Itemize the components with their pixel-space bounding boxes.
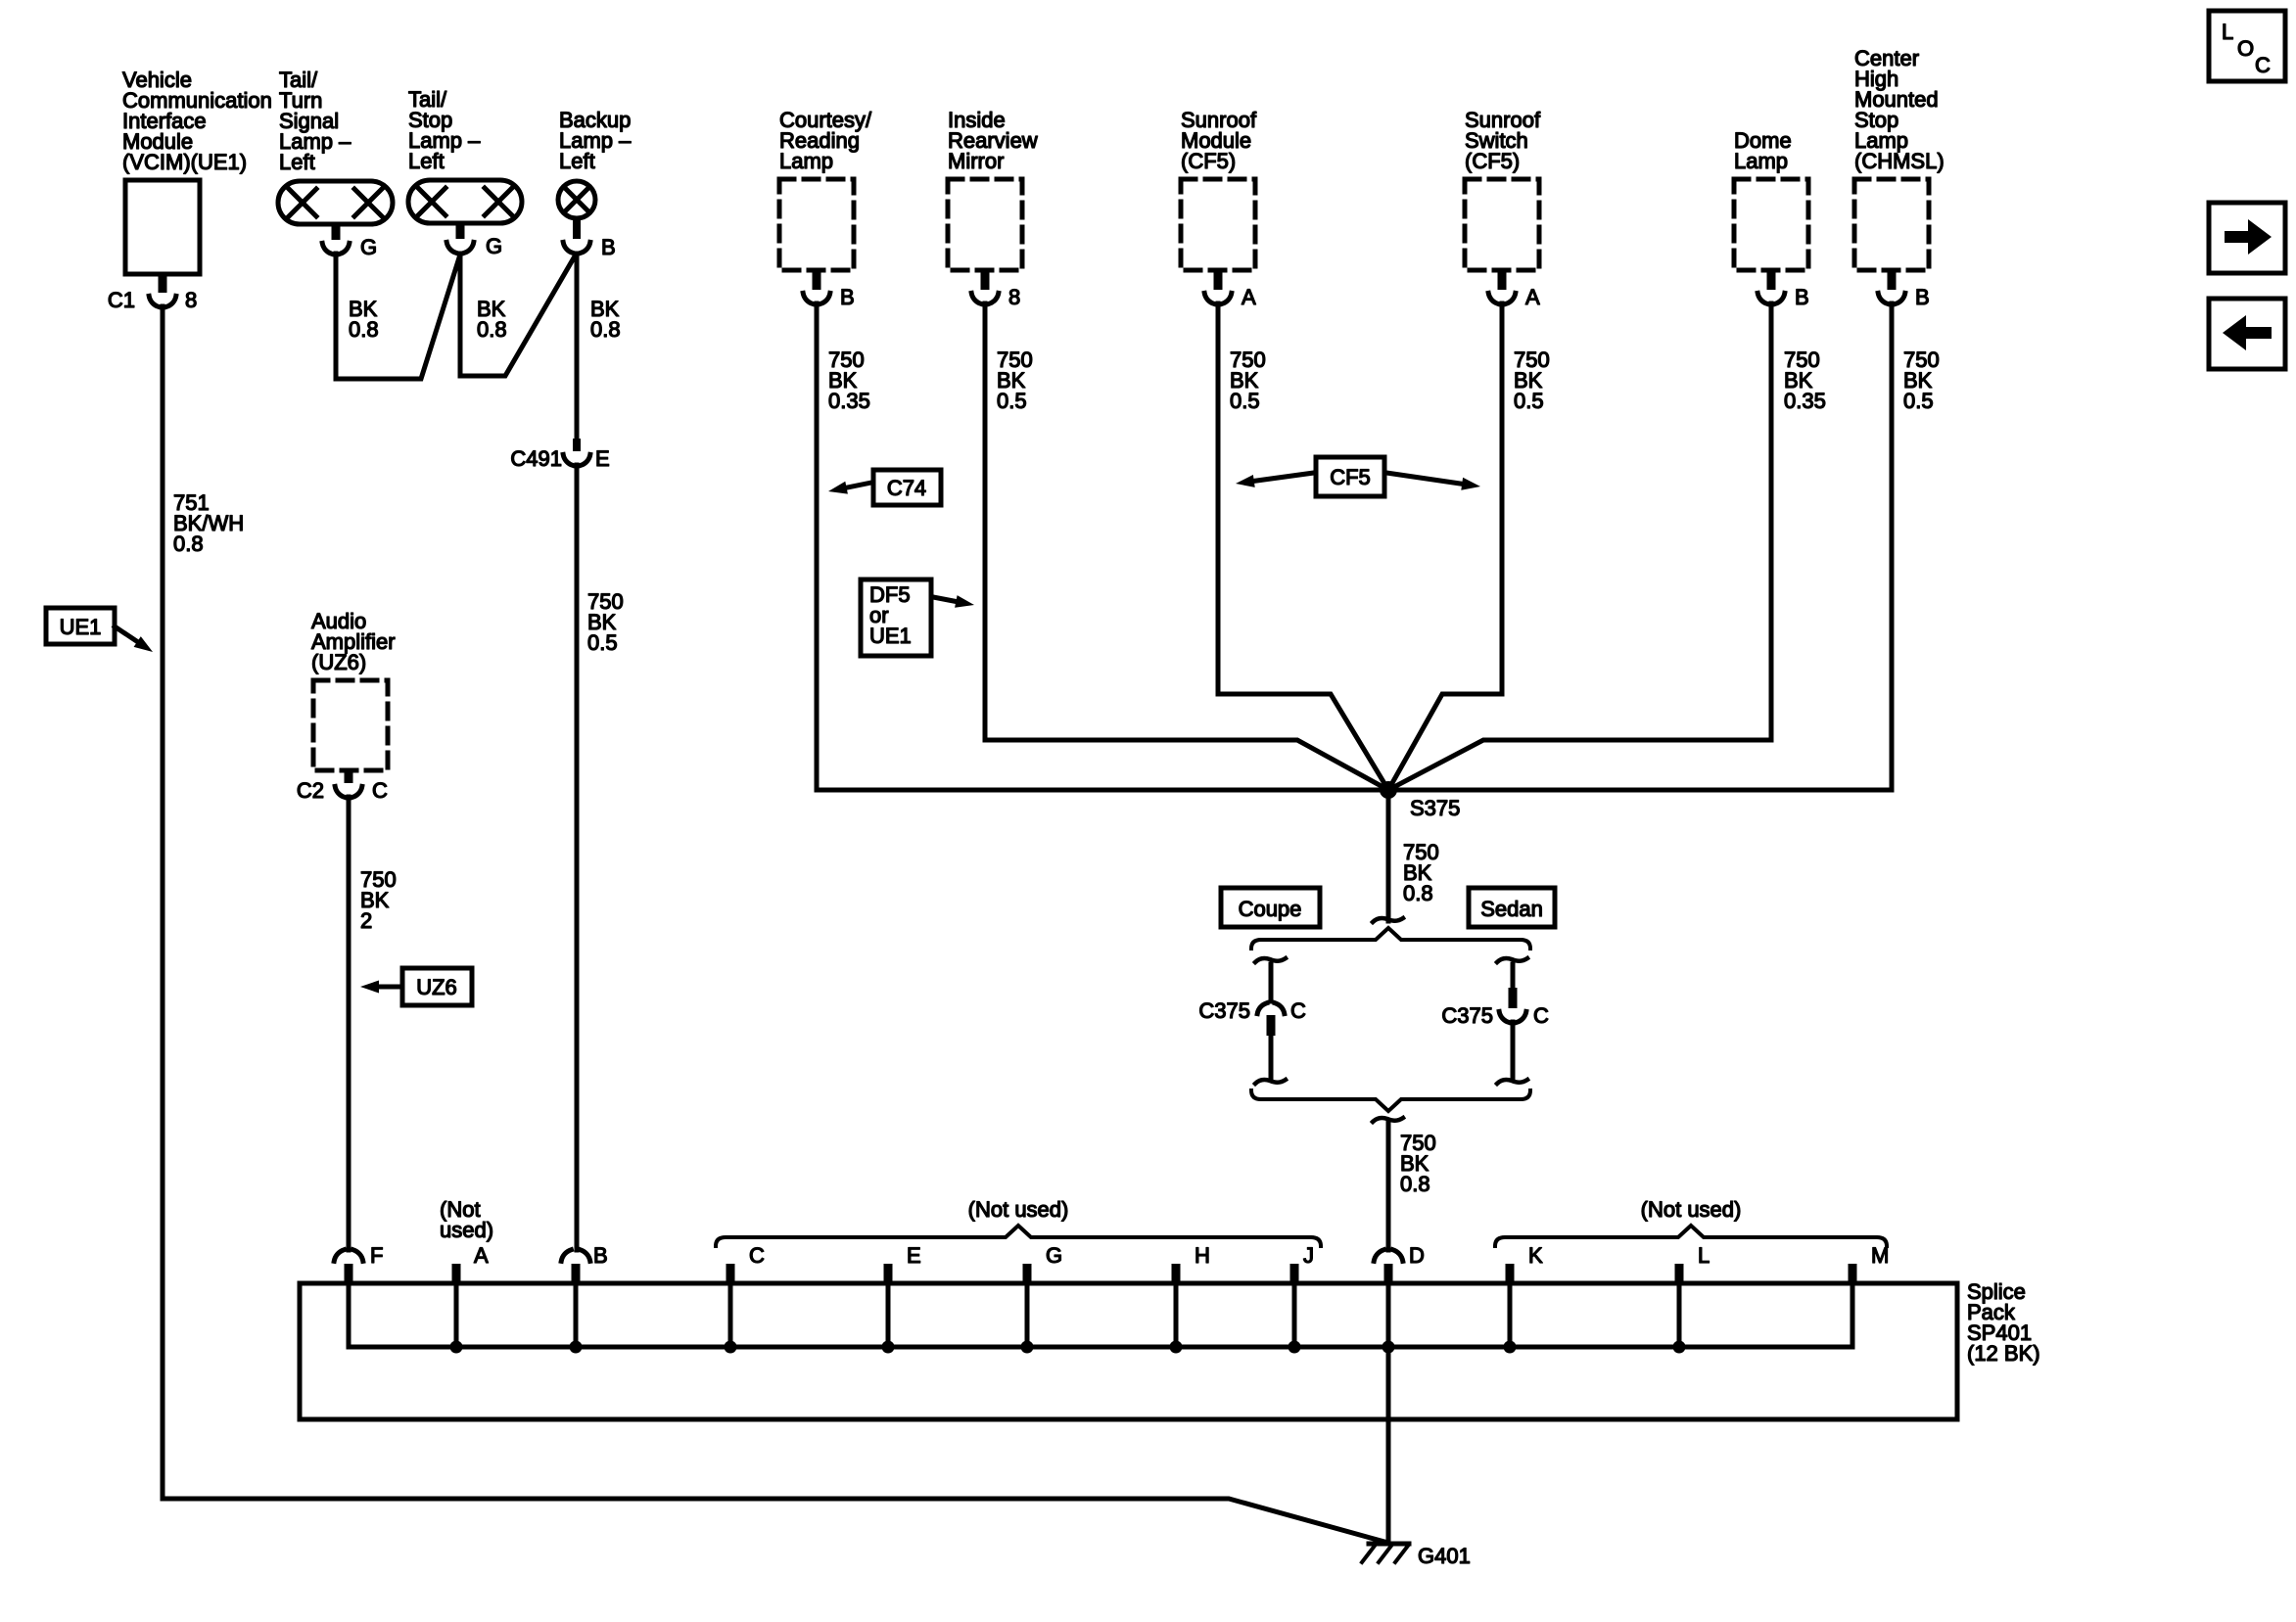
svg-text:(CHMSL): (CHMSL) bbox=[1854, 149, 1945, 173]
label courtesy/reading lamp bbox=[779, 108, 872, 173]
harness code box DF5 or UE1 bbox=[861, 579, 974, 656]
label Tail/Stop Lamp - Left bbox=[408, 87, 481, 173]
lamp E3 backup lamp symbol bbox=[558, 181, 595, 218]
svg-text:8: 8 bbox=[1008, 285, 1020, 309]
svg-text:0.5: 0.5 bbox=[587, 630, 618, 655]
splice pack terminal M bbox=[1849, 1243, 1890, 1283]
svg-text:G: G bbox=[486, 234, 502, 258]
svg-text:C2: C2 bbox=[297, 778, 324, 803]
svg-text:D: D bbox=[1409, 1243, 1425, 1268]
wire label BK 0.8 (backup) bbox=[590, 297, 621, 342]
junction dot at terminal G bbox=[1021, 1341, 1034, 1354]
label sunroof module (CF5) bbox=[1181, 108, 1257, 173]
wire 750 BK 0.8 from S375 down bbox=[1386, 794, 1391, 921]
wire label 750 BK 0.35 (courtesy) bbox=[828, 348, 870, 413]
wire BK 0.8 tail/stop lamp bbox=[460, 254, 576, 376]
component courtesy/reading lamp dashed box bbox=[779, 179, 854, 270]
component sunroof module (CF5) dashed box bbox=[1181, 179, 1255, 270]
terminal G stub to internal bus bbox=[1025, 1283, 1030, 1347]
svg-text:UZ6: UZ6 bbox=[416, 975, 457, 999]
coupe branch wire lower bbox=[1255, 1036, 1286, 1084]
svg-text:UE1: UE1 bbox=[60, 615, 102, 639]
splice pack internal bus bar bbox=[349, 1345, 1852, 1350]
svg-text:(UZ6): (UZ6) bbox=[311, 650, 366, 674]
svg-text:B: B bbox=[840, 285, 855, 309]
label (Not used) over C-J bbox=[968, 1197, 1069, 1222]
wire BK 0.8 tail/turn lamp bbox=[336, 254, 460, 379]
wire 750 BK 0.5 from C491 to splice pack pin B bbox=[575, 465, 580, 1250]
ground label G401 bbox=[1418, 1544, 1471, 1568]
svg-text:Left: Left bbox=[408, 149, 445, 173]
terminal K stub to internal bus bbox=[1508, 1283, 1513, 1347]
svg-text:C: C bbox=[372, 778, 388, 803]
svg-text:0.5: 0.5 bbox=[1230, 389, 1260, 413]
junction dot at terminal A bbox=[450, 1341, 463, 1354]
variant box Sedan bbox=[1469, 888, 1555, 927]
label inside rearview mirror bbox=[948, 108, 1038, 173]
svg-text:(Not used): (Not used) bbox=[968, 1197, 1069, 1222]
component dome lamp dashed box bbox=[1734, 179, 1808, 270]
harness code box UZ6 bbox=[360, 968, 472, 1005]
lamp E2 tail/stop dual-filament symbol bbox=[408, 180, 522, 223]
sedan branch wire upper bbox=[1497, 958, 1527, 988]
wire label 750 BK 2 bbox=[360, 867, 397, 933]
terminal E stub to internal bus bbox=[886, 1283, 891, 1347]
svg-text:0.8: 0.8 bbox=[1400, 1172, 1430, 1196]
forward page arrow box bbox=[2209, 203, 2285, 273]
splice label S375 bbox=[1410, 796, 1460, 820]
connector pin G of tail/stop lamp bbox=[446, 223, 502, 258]
wire label BK 0.8 (tail/stop) bbox=[477, 297, 507, 342]
wire 750 BK 0.5 CHMSL to S375 bbox=[1890, 303, 1895, 790]
svg-text:G: G bbox=[360, 235, 377, 259]
inline connector C491 pin E bbox=[510, 439, 609, 471]
svg-text:Left: Left bbox=[559, 149, 595, 173]
svg-text:A: A bbox=[1525, 285, 1540, 309]
svg-text:A: A bbox=[1242, 285, 1256, 309]
terminal C stub to internal bus bbox=[728, 1283, 733, 1347]
wire label 751 BK/WH 0.8 bbox=[173, 490, 244, 556]
wire label 750 BK 0.5 (CHMSL) bbox=[1903, 348, 1940, 413]
svg-text:J: J bbox=[1303, 1243, 1314, 1268]
svg-text:used): used) bbox=[440, 1218, 493, 1242]
connector pin A of sunroof switch (CF5) bbox=[1488, 270, 1540, 309]
splice pack top bus line bbox=[300, 1281, 1957, 1286]
svg-text:C: C bbox=[1290, 998, 1306, 1023]
splice pack terminal L bbox=[1675, 1243, 1710, 1283]
connector pin A of sunroof module (CF5) bbox=[1204, 270, 1256, 309]
brace joining coupe/sedan branches bbox=[1251, 1090, 1530, 1111]
connector pin B of center high mounted stop lamp (CHMSL) bbox=[1878, 270, 1929, 309]
svg-text:Coupe: Coupe bbox=[1239, 897, 1302, 921]
back page arrow box bbox=[2209, 299, 2285, 369]
svg-text:Left: Left bbox=[279, 150, 315, 174]
brace (Not used) over terminals C-J bbox=[716, 1226, 1321, 1246]
connector pin 8 of inside rearview mirror bbox=[971, 270, 1020, 309]
variant box Coupe bbox=[1221, 888, 1320, 927]
splice pack terminal D bbox=[1374, 1243, 1425, 1283]
inline connector C375 (sedan) pin C bbox=[1441, 988, 1549, 1028]
component sunroof switch (CF5) dashed box bbox=[1465, 179, 1539, 270]
label Audio Amplifier (UZ6) bbox=[311, 609, 396, 674]
wire 750 BK 0.5 mirror to S375 bbox=[985, 303, 1388, 790]
junction dot at terminal C bbox=[725, 1341, 737, 1354]
svg-text:0.5: 0.5 bbox=[997, 389, 1027, 413]
sedan branch wire lower bbox=[1497, 1022, 1527, 1084]
wire 750 BK 0.5 sunroof switch to S375 bbox=[1388, 303, 1502, 790]
wire bus into splice S375 bbox=[817, 788, 1892, 793]
wire break symbol below joining brace bbox=[1373, 1118, 1403, 1122]
svg-text:G: G bbox=[1046, 1243, 1062, 1268]
svg-text:2: 2 bbox=[360, 908, 372, 933]
svg-text:L: L bbox=[2222, 20, 2233, 44]
terminal F stub to internal bus bbox=[347, 1283, 351, 1347]
harness code box UE1 bbox=[46, 608, 153, 652]
wire 751 BK/WH from VCIM C1 pin 8 to G401 bbox=[163, 306, 1384, 1542]
svg-text:(CF5): (CF5) bbox=[1465, 149, 1520, 173]
wire label 750 BK 0.5 (sunroof switch) bbox=[1514, 348, 1550, 413]
svg-text:(Not used): (Not used) bbox=[1641, 1197, 1742, 1222]
wire 750 BK 0.8 down to splice pack pin D bbox=[1386, 1123, 1391, 1250]
svg-text:C: C bbox=[1533, 1003, 1549, 1028]
svg-text:CF5: CF5 bbox=[1330, 465, 1371, 489]
wire BK 0.8 backup lamp to C491 bbox=[575, 254, 580, 439]
module U2 audio amplifier dashed box bbox=[313, 680, 388, 770]
page marker LOC box bbox=[2209, 11, 2285, 81]
svg-text:S375: S375 bbox=[1410, 796, 1460, 820]
svg-text:C74: C74 bbox=[887, 476, 926, 500]
svg-text:0.35: 0.35 bbox=[828, 389, 870, 413]
wire label 750 BK 0.5 (backup) bbox=[587, 589, 624, 655]
svg-text:B: B bbox=[1795, 285, 1809, 309]
terminal A stub to internal bus bbox=[454, 1283, 459, 1347]
svg-text:O: O bbox=[2237, 36, 2254, 61]
splice pack terminal E bbox=[884, 1243, 921, 1283]
junction dot at terminal B bbox=[570, 1341, 583, 1354]
svg-text:Lamp: Lamp bbox=[779, 149, 833, 173]
component inside rearview mirror dashed box bbox=[948, 179, 1022, 270]
coupe branch wire upper bbox=[1255, 958, 1286, 1001]
brace splitting to coupe/sedan branches bbox=[1251, 928, 1530, 949]
connector code box CF5 with arrows to sunroof wires bbox=[1236, 457, 1480, 496]
svg-text:C: C bbox=[749, 1243, 765, 1268]
lamp E1 tail/turn dual-filament symbol bbox=[278, 181, 393, 224]
svg-text:K: K bbox=[1528, 1243, 1543, 1268]
splice pack terminal G bbox=[1023, 1243, 1063, 1283]
splice pack terminal A bbox=[452, 1243, 490, 1283]
inline connector C375 (coupe) pin C bbox=[1198, 998, 1306, 1036]
svg-text:C375: C375 bbox=[1441, 1003, 1493, 1028]
label sunroof switch (CF5) bbox=[1465, 108, 1541, 173]
svg-text:0.8: 0.8 bbox=[1403, 881, 1433, 905]
junction dot at terminal K bbox=[1504, 1341, 1517, 1354]
svg-text:Mirror: Mirror bbox=[948, 149, 1004, 173]
svg-text:(CF5): (CF5) bbox=[1181, 149, 1236, 173]
svg-text:Lamp: Lamp bbox=[1734, 149, 1788, 173]
connector C2 pin C bbox=[297, 770, 388, 803]
wire label 750 BK 0.5 (mirror) bbox=[997, 348, 1033, 413]
terminal M stub to internal bus bbox=[1851, 1283, 1855, 1347]
svg-text:0.8: 0.8 bbox=[349, 317, 379, 342]
splice pack terminal H bbox=[1172, 1243, 1210, 1283]
svg-text:0.8: 0.8 bbox=[173, 532, 204, 556]
connector C1 pin 8 bbox=[108, 274, 197, 312]
splice S375 junction dot bbox=[1380, 781, 1397, 799]
svg-text:B: B bbox=[593, 1243, 608, 1268]
splice pack terminal F bbox=[334, 1243, 383, 1283]
label Vehicle Communication Interface Module (VCIM)(UE1) bbox=[122, 68, 272, 174]
module U1 VCIM box bbox=[125, 180, 200, 274]
wire label 750 BK 0.8 (below S375) bbox=[1403, 840, 1439, 905]
svg-text:(VCIM)(UE1): (VCIM)(UE1) bbox=[122, 150, 247, 174]
svg-text:C1: C1 bbox=[108, 288, 135, 312]
junction dot at terminal L bbox=[1673, 1341, 1686, 1354]
terminal H stub to internal bus bbox=[1174, 1283, 1179, 1347]
svg-text:E: E bbox=[595, 446, 610, 471]
svg-text:E: E bbox=[907, 1243, 921, 1268]
splice pack SP401 outline box bbox=[300, 1283, 1957, 1419]
wire label BK 0.8 (tail/turn) bbox=[349, 297, 379, 342]
svg-text:8: 8 bbox=[185, 288, 197, 312]
terminal L stub to internal bus bbox=[1677, 1283, 1682, 1347]
wire label 750 BK 0.35 (dome) bbox=[1784, 348, 1826, 413]
wire 750 BK 0.5 sunroof module to S375 bbox=[1218, 303, 1388, 790]
svg-text:L: L bbox=[1698, 1243, 1710, 1268]
svg-text:B: B bbox=[601, 235, 616, 259]
svg-text:0.5: 0.5 bbox=[1903, 389, 1934, 413]
component center high mounted stop lamp (CHMSL) dashed box bbox=[1854, 179, 1929, 270]
connector pin G of tail/turn lamp bbox=[322, 224, 377, 259]
svg-text:C491: C491 bbox=[510, 446, 562, 471]
label dome lamp bbox=[1734, 128, 1792, 173]
wire label 750 BK 0.5 (sunroof module) bbox=[1230, 348, 1266, 413]
brace (Not used) over terminals K-M bbox=[1495, 1226, 1887, 1246]
terminal J stub to internal bus bbox=[1292, 1283, 1297, 1347]
splice pack terminal K bbox=[1506, 1243, 1544, 1283]
label (Not used) over terminal A bbox=[440, 1197, 493, 1242]
svg-text:UE1: UE1 bbox=[869, 624, 912, 648]
label Splice Pack SP401 (12 BK) bbox=[1967, 1279, 2040, 1366]
splice pack terminal J bbox=[1290, 1243, 1315, 1283]
svg-text:H: H bbox=[1195, 1243, 1210, 1268]
svg-text:0.8: 0.8 bbox=[477, 317, 507, 342]
wire break symbol above coupe/sedan brace bbox=[1373, 918, 1403, 922]
svg-text:(12 BK): (12 BK) bbox=[1967, 1341, 2040, 1366]
connector pin B of backup lamp bbox=[563, 218, 615, 259]
connector pin B of dome lamp bbox=[1757, 270, 1808, 309]
ground symbol G401 bbox=[1362, 1544, 1409, 1562]
wire 750 BK 2 from amplifier to splice pack pin F bbox=[347, 797, 351, 1250]
junction dot at terminal J bbox=[1289, 1341, 1301, 1354]
wire from splice pack pin D to ground G401 bbox=[1386, 1283, 1391, 1544]
svg-text:Sedan: Sedan bbox=[1480, 897, 1543, 921]
label Backup Lamp - Left bbox=[559, 108, 632, 173]
svg-text:A: A bbox=[474, 1243, 489, 1268]
label (Not used) over K-M bbox=[1641, 1197, 1742, 1222]
connector pin B of courtesy/reading lamp bbox=[803, 270, 854, 309]
connector code box C74 bbox=[828, 470, 941, 505]
svg-text:C375: C375 bbox=[1198, 998, 1250, 1023]
label center high mounted stop lamp (CHMSL) bbox=[1854, 46, 1945, 173]
splice pack terminal C bbox=[726, 1243, 766, 1283]
svg-text:G401: G401 bbox=[1418, 1544, 1471, 1568]
junction dot at terminal E bbox=[882, 1341, 895, 1354]
junction dot at terminal D bbox=[1382, 1341, 1395, 1354]
terminal B stub to internal bus bbox=[574, 1283, 579, 1347]
wire label 750 BK 0.8 (above splice pack) bbox=[1400, 1131, 1436, 1196]
junction dot at terminal H bbox=[1170, 1341, 1183, 1354]
label Tail/Turn Signal Lamp - Left bbox=[279, 68, 351, 174]
svg-text:0.8: 0.8 bbox=[590, 317, 621, 342]
svg-text:B: B bbox=[1915, 285, 1930, 309]
svg-text:0.35: 0.35 bbox=[1784, 389, 1826, 413]
splice pack terminal B bbox=[561, 1243, 607, 1283]
svg-text:0.5: 0.5 bbox=[1514, 389, 1544, 413]
wire 750 BK 0.35 dome lamp to S375 bbox=[1388, 303, 1771, 790]
svg-text:C: C bbox=[2255, 53, 2271, 77]
svg-text:F: F bbox=[370, 1243, 383, 1268]
wire 750 BK 0.35 courtesy lamp to S375 bbox=[815, 303, 820, 790]
